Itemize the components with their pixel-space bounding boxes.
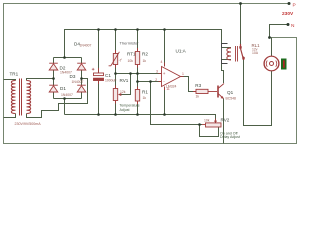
svg-text:10k: 10k: [128, 59, 134, 63]
svg-text:11: 11: [166, 87, 170, 91]
svg-text:1N4007: 1N4007: [60, 70, 72, 74]
svg-text:C1: C1: [105, 73, 111, 78]
svg-text:R3: R3: [195, 83, 201, 88]
svg-text:BC548: BC548: [226, 96, 236, 100]
svg-text:1k: 1k: [143, 59, 147, 63]
svg-text:RL1: RL1: [252, 43, 261, 48]
svg-text:1N4007: 1N4007: [80, 43, 92, 47]
svg-text:12k: 12k: [120, 90, 126, 94]
svg-text:1N4007: 1N4007: [72, 80, 84, 84]
svg-text:4: 4: [161, 60, 163, 64]
svg-text:10A: 10A: [252, 51, 259, 55]
svg-text:P: P: [293, 3, 296, 9]
svg-text:1N4007: 1N4007: [61, 93, 73, 97]
svg-text:RV2: RV2: [221, 117, 230, 122]
svg-text:RV1: RV1: [120, 78, 129, 83]
svg-text:Adjust: Adjust: [120, 108, 130, 112]
svg-text:1k: 1k: [143, 96, 147, 100]
svg-text:2: 2: [155, 78, 157, 82]
svg-text:D1: D1: [60, 86, 66, 91]
svg-text:U1:A: U1:A: [176, 48, 187, 53]
svg-text:230V/9V/500mA: 230V/9V/500mA: [15, 122, 42, 126]
svg-text:RT1: RT1: [127, 52, 136, 57]
svg-text:+: +: [163, 71, 166, 76]
svg-text:R1: R1: [142, 90, 148, 95]
svg-text:Q1: Q1: [227, 90, 234, 95]
svg-text:1000uF: 1000uF: [105, 79, 117, 83]
svg-text:R2: R2: [142, 52, 148, 57]
svg-text:N: N: [291, 23, 295, 29]
svg-text:TR1: TR1: [10, 72, 19, 77]
svg-text:230V: 230V: [282, 11, 294, 17]
svg-text:D3: D3: [70, 74, 76, 79]
svg-text:Delay Adjust: Delay Adjust: [220, 135, 240, 139]
svg-text:3: 3: [156, 69, 158, 73]
svg-text:10k: 10k: [204, 119, 210, 123]
svg-text:1: 1: [182, 72, 184, 76]
svg-text:1k: 1k: [196, 95, 200, 99]
svg-text:Thermistor: Thermistor: [120, 40, 140, 45]
